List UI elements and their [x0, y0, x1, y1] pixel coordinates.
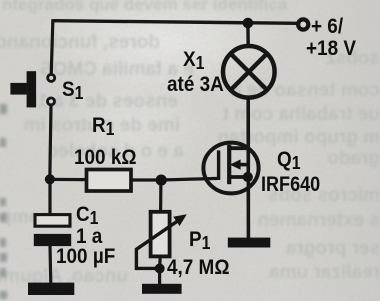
terminal +V: [298, 19, 308, 29]
channel bar: [227, 145, 231, 184]
label P1: [189, 227, 210, 254]
label R1: [92, 113, 114, 140]
label Q1: [277, 147, 301, 174]
wire lamp to Q1 drain and source to ground: [246, 97, 250, 239]
drain horizontal: [228, 146, 249, 150]
lamp X1: [223, 46, 275, 98]
wire node B to gate: [161, 178, 219, 180]
label X1: [183, 47, 204, 74]
wire C1 to ground: [50, 246, 52, 285]
wire node A to C1: [48, 179, 51, 215]
body arrow: [230, 159, 241, 169]
label C1: [76, 202, 98, 229]
label IRF640: [261, 172, 320, 197]
wire R1 to node B: [130, 178, 161, 181]
label +6/+18V: [311, 14, 343, 39]
gate bar: [217, 150, 220, 180]
source junction dot: [243, 172, 253, 182]
label 100 µF: [56, 244, 115, 269]
junction node C: [155, 264, 165, 274]
label S1: [62, 77, 83, 104]
label 100 kΩ: [74, 145, 137, 170]
junction top node: [243, 18, 254, 29]
source horizontal: [228, 175, 249, 179]
junction node B: [156, 175, 167, 186]
wire top node to lamp: [246, 23, 250, 48]
label 4,7 MΩ: [167, 255, 229, 280]
wire S1 to node A: [50, 106, 51, 180]
label 1 a: [76, 224, 102, 249]
ground below Q1: [228, 238, 270, 248]
wire P1 to node C: [158, 255, 162, 269]
wire top rail: [53, 21, 297, 24]
potentiometer P1: [136, 212, 186, 269]
ground below P1: [142, 284, 182, 294]
wire node C to ground: [158, 269, 161, 286]
junction node A: [45, 174, 55, 184]
resistor R1: [87, 170, 132, 192]
wire node B to P1: [159, 180, 162, 213]
capacitor C1: [34, 215, 71, 246]
mosfet Q1: [203, 143, 258, 194]
wire node A to R1: [50, 178, 87, 181]
body arrow tail: [238, 163, 249, 167]
pushbutton S1: [10, 71, 54, 107]
wire rail corner to S1: [51, 19, 53, 74]
ground below C1: [28, 283, 74, 295]
label até 3A: [167, 72, 224, 97]
